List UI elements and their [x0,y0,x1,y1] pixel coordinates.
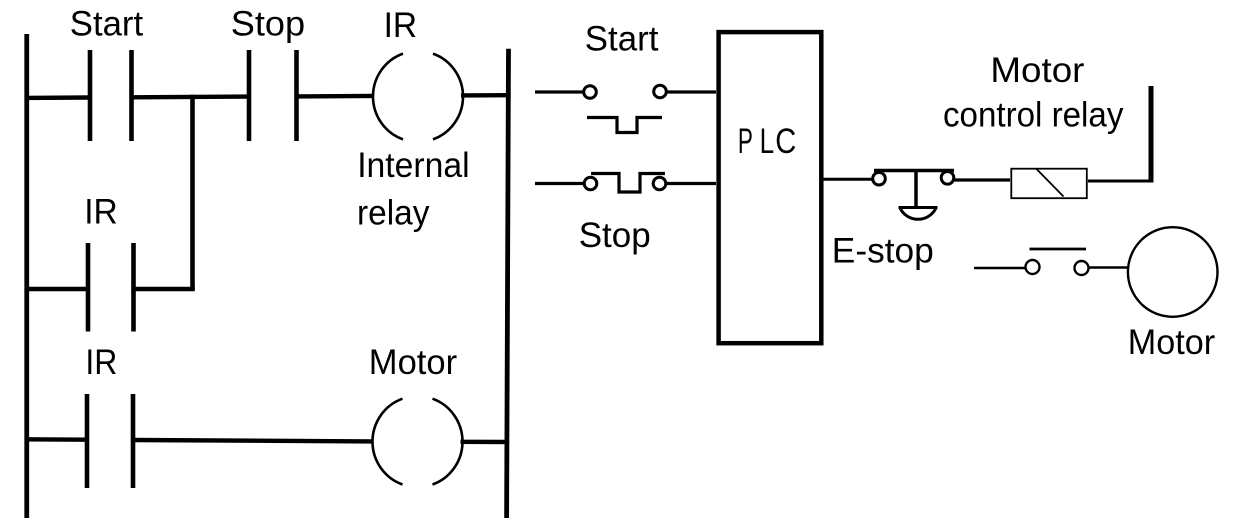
contact Start (NO) rung1 [90,50,132,141]
pushbutton Stop (NC) [584,174,666,193]
wire supply riser [1149,86,1154,183]
svg-text:Start: Start [70,4,144,43]
svg-text:L: L [760,122,775,161]
svg-text:Motor: Motor [990,51,1084,90]
switch E-stop [873,171,954,220]
svg-text:IR: IR [84,192,118,231]
wire: motor circuit left lead [974,267,1025,269]
contact IR rung2 [88,243,134,332]
svg-text:C: C [775,122,796,161]
wire rung1: Start contact to Stop contact [132,94,250,99]
wire rung3: left rail to IR contact [25,437,88,442]
wire branch down from rung1 to rung2 [190,95,195,289]
svg-text:P: P [738,122,753,161]
wire rung1: IR coil to right rail [461,93,508,98]
svg-text:IR: IR [384,6,418,45]
wire rung2: left rail to IR contact [25,287,89,291]
svg-text:relay: relay [357,193,430,232]
right power rail [507,49,509,518]
relay contact (motor circuit) [1026,249,1089,275]
wire: Start button to PLC [667,90,716,93]
svg-text:Motor: Motor [369,343,458,382]
svg-text:Internal: Internal [357,146,469,185]
motor M [1128,227,1218,317]
svg-text:Stop: Stop [231,4,305,43]
contact Stop rung1 [249,50,297,141]
wire rung3: IR contact to Motor coil [133,440,373,441]
svg-text:control relay: control relay [943,96,1124,135]
box PLC [719,32,822,343]
wire: Start button left lead [535,90,583,93]
wire: PLC output to E-stop [821,178,872,181]
label Internal relay [357,146,470,232]
wire rung2: IR contact to branch junction [134,287,195,291]
coil IR (internal relay) [373,54,463,140]
wire rung3: Motor coil to right rail [461,440,509,445]
svg-text:E-stop: E-stop [832,232,934,271]
svg-text:Motor: Motor [1128,323,1216,362]
pushbutton Start (NO) [584,85,667,132]
wire: E-stop to relay coil [954,178,1010,181]
left power rail [24,34,29,518]
relay coil box (motor control relay) [1011,169,1087,199]
svg-text:Start: Start [585,20,659,59]
label Motor control relay [943,51,1124,135]
wire rung1: left rail to Start contact [25,95,91,100]
wire rung1: Stop contact to IR coil [297,94,375,99]
coil Motor [372,399,462,485]
wire: relay contact to motor [1089,266,1127,268]
svg-text:Stop: Stop [579,216,651,255]
wire: relay coil to supply riser [1088,180,1151,183]
svg-text:IR: IR [85,343,117,382]
wire: Stop button to PLC [666,182,716,185]
contact IR rung3 [87,394,133,488]
wire: Stop button left lead [535,182,584,185]
